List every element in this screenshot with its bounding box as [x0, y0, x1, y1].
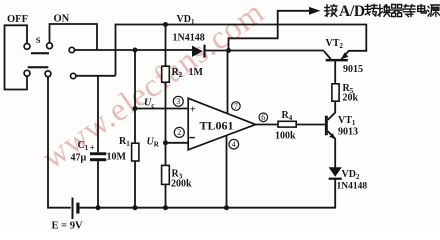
wire R4 to VT1 base [296, 124, 325, 126]
wire pole2 ON contact to top rail riser [76, 75, 116, 77]
transistor VT2 emitter arrow [341, 52, 348, 59]
battery E positive plate [72, 198, 74, 220]
switch S pole2 OFF contact [24, 70, 30, 76]
wire pole2 common down to battery [47, 77, 49, 209]
wire node Uc to op-amp pin 3 [135, 108, 189, 110]
resistor R5 body [332, 84, 339, 101]
pin 4 bubble [229, 139, 239, 149]
switch S pole2 common contact [45, 71, 51, 77]
wire VT2 base to R5 [334, 61, 336, 84]
wire op-amp output to R4 [255, 124, 278, 126]
output arrow head [309, 7, 321, 15]
capacitor C1 plus plate [90, 152, 106, 155]
wire top supply rail [115, 24, 367, 26]
svg-text:S: S [36, 35, 41, 45]
wire C1 bottom lead [97, 161, 99, 208]
junction R2-top rail [163, 22, 168, 27]
svg-text:1M: 1M [189, 67, 204, 78]
svg-text:200k: 200k [171, 179, 192, 190]
svg-text:20k: 20k [343, 93, 359, 104]
svg-text:E = 9V: E = 9V [52, 221, 83, 232]
svg-text:TL061: TL061 [200, 119, 234, 133]
diode VD2 triangle [329, 167, 342, 177]
switch S pole1 lever [31, 52, 49, 54]
junction VD1-pin7-output [226, 48, 231, 53]
wire ground rail left of battery [47, 207, 71, 209]
wire OFF bracket connecting OFF contacts [5, 25, 28, 89]
junction UR divider tap [163, 140, 168, 145]
svg-text:47μ: 47μ [71, 153, 87, 164]
wire C1 top lead [97, 75, 99, 152]
transistor VT1 base bar [325, 116, 328, 136]
wire pin 7 to supply [227, 51, 229, 115]
wire pin 4 to ground [226, 135, 228, 208]
resistor R2 body [162, 66, 170, 82]
wire R2 to R3 [165, 82, 167, 165]
svg-text:1N4148: 1N4148 [173, 33, 205, 44]
wire output branch [229, 11, 310, 51]
svg-text:2: 2 [177, 128, 181, 137]
transistor VT1 emitter arrow [329, 133, 335, 139]
transistor VT2 emitter lead [341, 24, 366, 60]
op-amp U1 triangle [188, 98, 255, 150]
wire ground rail [80, 178, 336, 208]
wire R1 top lead [134, 50, 136, 143]
resistor R1 body [132, 143, 139, 161]
pin 7 bubble [232, 102, 241, 111]
junction R1-ground [133, 205, 138, 210]
wire node UR to op-amp pin 2 [166, 142, 189, 144]
switch S pole2 lever [28, 66, 49, 68]
svg-text:9015: 9015 [343, 64, 363, 75]
caption connect to A/D converter power [326, 5, 328, 17]
wire R2 top lead [165, 25, 167, 67]
capacitor C1 minus plate [90, 158, 106, 161]
junction R1-switch wire [133, 48, 138, 53]
transistor VT2 collector lead [324, 51, 331, 59]
transistor VT2 base bar [326, 59, 348, 62]
svg-text:4: 4 [232, 140, 236, 149]
pin 2 bubble [174, 127, 184, 137]
wire VD1 cathode to VT2 collector [205, 50, 324, 52]
svg-text:+: + [190, 105, 196, 116]
resistor R4 body [278, 121, 296, 127]
diode VD2 cathode bar [329, 178, 342, 180]
svg-text:7: 7 [234, 102, 238, 111]
switch S pole2 ON contact [71, 73, 76, 78]
op-amp inverting - mark [189, 137, 195, 139]
resistor R3 body [162, 165, 170, 184]
svg-text:9013: 9013 [338, 127, 358, 138]
wire R1 bottom lead [134, 161, 136, 208]
svg-text:A/D: A/D [339, 3, 365, 20]
junction Uc-R1 [133, 106, 138, 111]
pin 3 bubble [173, 96, 183, 106]
junction pin4-ground [224, 205, 229, 210]
diode VD1 triangle [192, 46, 203, 57]
transistor VT1 emitter lead [328, 131, 335, 167]
svg-text:3: 3 [176, 97, 180, 106]
svg-text:OFF: OFF [7, 14, 28, 25]
svg-text:+: + [90, 144, 95, 154]
transistor VT1 collector lead [328, 101, 335, 120]
switch S pole1 ON contact [69, 47, 74, 52]
wire top rail riser [115, 24, 117, 76]
diode VD1 cathode bar [203, 45, 205, 58]
wire ON bracket from pole 1 common [50, 24, 98, 50]
junction C1-ground [96, 205, 101, 210]
switch S pole1 common contact [47, 43, 53, 49]
svg-text:100k: 100k [275, 131, 296, 142]
switch S pole1 OFF contact [24, 44, 30, 50]
svg-text:ON: ON [54, 14, 70, 25]
svg-text:1N4148: 1N4148 [337, 182, 368, 192]
pin 6 bubble [259, 113, 268, 122]
svg-text:10M: 10M [107, 152, 127, 163]
svg-text:6: 6 [261, 113, 265, 122]
wire R3 bottom lead [165, 184, 167, 207]
wire pole1 ON contact to VD1 anode [75, 49, 192, 51]
junction R3-ground [163, 205, 168, 210]
battery E negative plate [76, 203, 79, 214]
